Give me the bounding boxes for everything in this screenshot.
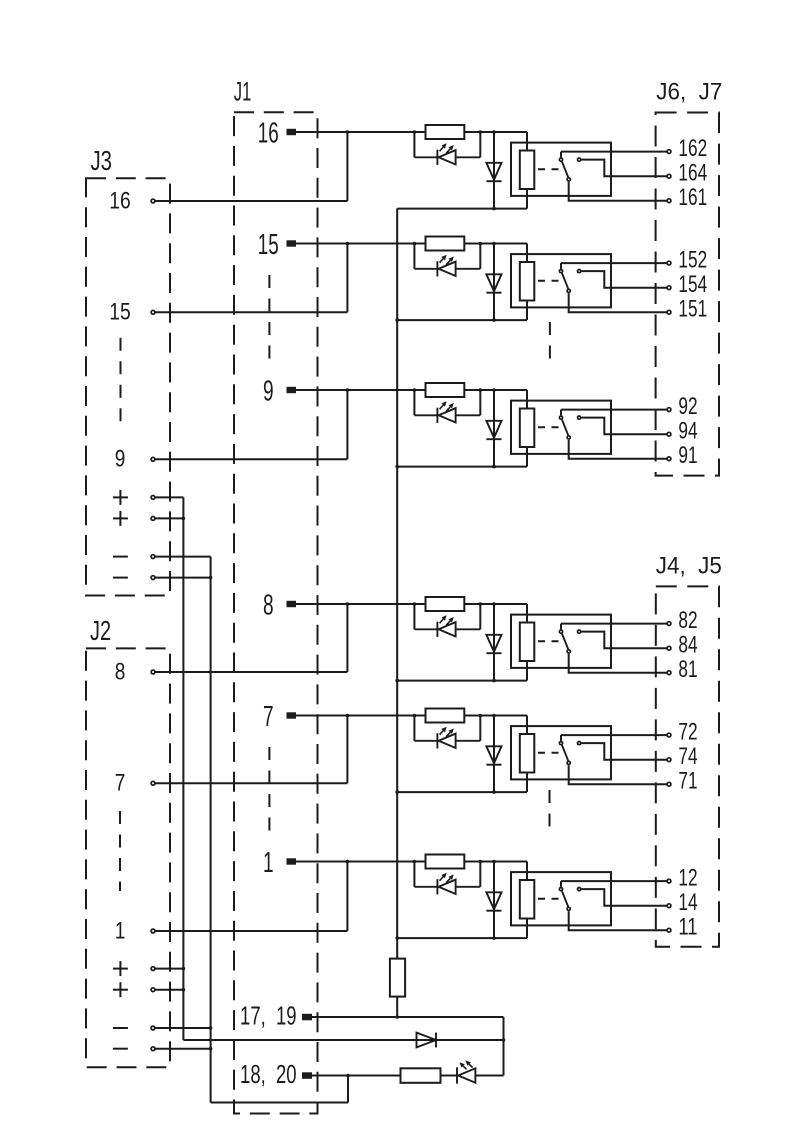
wire: diode D7 vertical xyxy=(493,716,495,793)
wire: common coil return rail xyxy=(396,209,398,959)
svg-text:71: 71 xyxy=(678,768,697,795)
relay K9 NC contact xyxy=(578,416,581,419)
relay K1 actuation link (dashed) xyxy=(538,898,560,900)
resistor R8 (power LED series) xyxy=(401,1068,441,1083)
svg-text:154: 154 xyxy=(678,271,707,298)
wire: riser joining pin 16 wires xyxy=(346,132,348,201)
wire: J2 pin - xyxy=(155,1048,210,1050)
svg-text:1: 1 xyxy=(115,917,126,944)
J3 pin + label xyxy=(113,490,128,505)
node: channel 1 LED branch left xyxy=(413,860,417,864)
LED7 emission arrow 2 xyxy=(469,1064,473,1068)
relay K9 NO contact xyxy=(567,436,570,439)
connector J1 (dashed box) xyxy=(234,112,318,1113)
wire: riser joining pin 1 wires xyxy=(346,862,348,932)
svg-text:82: 82 xyxy=(678,607,697,634)
J1 pin 17, 19 terminal square xyxy=(302,1014,312,1021)
wire: K1 NO contact to terminal 11 xyxy=(569,911,667,930)
node: diode D8 bottom junction xyxy=(492,679,496,683)
svg-text:15: 15 xyxy=(109,299,131,326)
LED16 emission arrow 1 xyxy=(440,147,444,151)
wire: diode D15 vertical xyxy=(493,244,495,321)
J3 pins continuation dashes xyxy=(120,338,122,424)
svg-text:161: 161 xyxy=(678,184,707,211)
wire: J2 pin 1 xyxy=(155,930,347,932)
J3 pin + contact xyxy=(151,517,155,521)
resistor R8 xyxy=(426,597,465,611)
node: J2 first + on rail xyxy=(182,967,186,971)
LED LED7 (power indicator) xyxy=(441,1067,504,1083)
J1 pin 15 terminal square xyxy=(287,240,297,246)
wire: J2 pin 8 xyxy=(155,671,347,673)
terminal 72 xyxy=(667,733,671,737)
resistor R15 xyxy=(426,237,465,251)
J1 pins continuation dashes (7..1) xyxy=(268,747,270,835)
svg-text:81: 81 xyxy=(678,656,697,683)
resistor R7 (common return) xyxy=(390,959,405,997)
terminal 162 xyxy=(667,150,671,154)
node: channel 16 LED branch right xyxy=(479,130,483,134)
node: channel 15 LED branch right xyxy=(479,242,483,246)
relay K15 actuation link (dashed) xyxy=(538,280,560,282)
J3 pin + label xyxy=(113,511,128,526)
svg-text:8: 8 xyxy=(115,658,126,685)
node: channel 8 LED branch right xyxy=(479,602,483,606)
wire: K7 NC contact to terminal 74 xyxy=(581,743,666,760)
wire: channel 7 input rail xyxy=(296,715,527,717)
wire: relay K15 coil top lead xyxy=(526,244,528,263)
connector J3 (dashed box) xyxy=(86,178,170,595)
svg-text:18, 20: 18, 20 xyxy=(240,1059,297,1089)
svg-text:J4, J5: J4, J5 xyxy=(656,552,722,579)
node: diode D9 bottom junction xyxy=(492,465,496,469)
wire: relay K7 coil top lead xyxy=(526,716,528,735)
node: J3 second - on rail xyxy=(209,576,213,580)
wire: LED15 branch left drop xyxy=(413,244,415,269)
node: channel 7 LED branch left xyxy=(413,714,417,718)
LED7 emission arrow 1 xyxy=(463,1066,466,1069)
J1 pin 9 terminal square xyxy=(287,387,297,393)
resistor R9 xyxy=(426,383,465,397)
relay K15 moving blade xyxy=(562,273,568,289)
terminal 71 xyxy=(667,782,671,786)
relay K16 moving blade xyxy=(562,162,568,178)
relay K7 moving blade xyxy=(562,745,568,761)
node: channel 16 junction to left connector xyxy=(346,130,350,134)
relay K7 actuation link (dashed) xyxy=(538,752,560,754)
wire: diode D1 vertical xyxy=(493,862,495,939)
node: J2 second + on rail xyxy=(182,988,186,992)
relay K9 coil xyxy=(520,409,535,448)
wire: LED16 branch left drop xyxy=(413,132,415,157)
wire: relay K9 coil bottom lead xyxy=(526,447,528,467)
wire: 18,20 line left part xyxy=(312,1075,401,1077)
relay K15 NO contact xyxy=(567,289,570,292)
resistor R16 xyxy=(426,125,465,139)
wire: J3 pin + xyxy=(155,496,183,498)
relay K7 NO contact xyxy=(567,761,570,764)
wire: channel 8 input rail xyxy=(296,603,527,605)
wire: relay K16 coil bottom lead xyxy=(526,189,528,209)
J2 pin 7 contact xyxy=(151,781,155,785)
wire: riser joining pin 8 wires xyxy=(346,604,348,672)
node: channel 7 LED branch right xyxy=(479,714,483,718)
wire: channel 9 input rail xyxy=(296,389,527,391)
svg-text:16: 16 xyxy=(258,117,279,149)
J2 pin + label xyxy=(113,982,128,997)
wire: K1 NC contact to terminal 14 xyxy=(581,889,666,906)
J2 pin + label xyxy=(113,961,128,976)
node: channel 9 return to common rail xyxy=(395,465,399,469)
wire: K15 common to terminal 152 xyxy=(561,262,667,264)
node: channel 9 LED branch right xyxy=(479,388,483,392)
wire: LED9 branch right rise xyxy=(479,390,481,415)
J3 pin + contact xyxy=(151,496,155,500)
wire: J3 pin 15 xyxy=(155,311,347,313)
svg-text:9: 9 xyxy=(115,446,126,473)
wire: K8 common riser xyxy=(560,624,562,630)
wire: K9 common to terminal 92 xyxy=(561,409,667,411)
node: channel 9 diode top xyxy=(492,388,496,392)
wire: J2 pin - xyxy=(155,1027,210,1029)
svg-text:74: 74 xyxy=(678,743,697,770)
diode D8 (flyback) xyxy=(486,635,501,653)
LED15 emission arrow 2 xyxy=(446,260,450,264)
connector J4, J5 (dashed box) xyxy=(656,586,719,946)
wire: relay K7 coil bottom lead xyxy=(526,773,528,793)
relay K1 NC contact xyxy=(578,888,581,891)
relay K16 common contact pivot xyxy=(559,158,562,161)
wire: riser joining pin 9 wires xyxy=(346,390,348,459)
svg-text:J1: J1 xyxy=(234,77,252,107)
svg-text:J3: J3 xyxy=(91,145,113,176)
node: R7 joins 17,19 line xyxy=(395,1015,399,1019)
terminal 11 xyxy=(667,928,671,932)
wire: LED1 branch left drop xyxy=(413,862,415,887)
relay K16 NO contact xyxy=(567,178,570,181)
wire: relay K15 coil bottom lead xyxy=(526,301,528,321)
node: channel 1 diode top xyxy=(492,860,496,864)
connector J2 (dashed box) xyxy=(86,648,170,1067)
svg-text:J6, J7: J6, J7 xyxy=(656,78,722,105)
node: channel 16 diode top xyxy=(492,130,496,134)
wire: + supply rail (vertical) xyxy=(182,497,184,1040)
J2 pin - label xyxy=(113,1048,128,1050)
wire: LED7 branch left drop xyxy=(413,716,415,741)
wire: relay K8 coil bottom lead xyxy=(526,661,528,681)
diode D16 (flyback) xyxy=(486,163,501,181)
J3 pin - contact xyxy=(151,555,155,559)
wire: K9 common riser xyxy=(560,410,562,416)
wire: 17,19 line xyxy=(312,1016,504,1018)
node: diode D7 bottom junction xyxy=(492,790,496,794)
terminal 81 xyxy=(667,671,671,675)
svg-text:16: 16 xyxy=(109,187,131,214)
wire: channel 15 input rail xyxy=(296,243,527,245)
node: channel 1 return to common rail xyxy=(395,936,399,940)
node: channel 15 diode top xyxy=(492,242,496,246)
wire: channel 1 return rail xyxy=(397,937,527,939)
LED8 emission arrow 2 xyxy=(446,621,450,625)
resistor R1 xyxy=(426,855,465,869)
svg-text:84: 84 xyxy=(678,632,697,659)
node: diode line joins right riser xyxy=(502,1038,506,1042)
wire: channel 16 input rail xyxy=(296,131,527,133)
node: channel 7 return to common rail xyxy=(395,790,399,794)
svg-text:72: 72 xyxy=(678,719,697,746)
wire: K1 common to terminal 12 xyxy=(561,880,667,882)
diode D7 (flyback) xyxy=(486,746,501,764)
wire: J2 pin + xyxy=(155,989,183,991)
wire: K8 NC contact to terminal 84 xyxy=(581,632,666,649)
wire: - supply rail (vertical) xyxy=(210,557,212,1103)
svg-text:94: 94 xyxy=(678,418,697,445)
node: channel 15 return to common rail xyxy=(395,318,399,322)
svg-text:7: 7 xyxy=(263,701,274,733)
wire: J3 pin 16 xyxy=(155,200,347,202)
J2 pin - contact xyxy=(151,1026,155,1030)
diode D15 (flyback) xyxy=(486,274,501,292)
J3 pin 15 contact xyxy=(151,310,155,314)
terminal 12 xyxy=(667,879,671,883)
diode D1 (flyback) xyxy=(486,892,501,910)
wire: J2 pin 7 xyxy=(155,782,347,784)
LED9 emission arrow 1 xyxy=(440,405,444,409)
relay group continuation dashes (upper) xyxy=(549,322,551,362)
relay K1 coil xyxy=(520,880,535,919)
relay K16 actuation link (dashed) xyxy=(538,168,560,170)
relay K15 NC contact xyxy=(578,270,581,273)
relay K16 outline xyxy=(511,143,611,196)
LED LED16 (indicator) xyxy=(414,150,480,165)
wire: K7 NO contact to terminal 71 xyxy=(569,765,667,784)
wire: R7 to 17,19 line xyxy=(396,997,398,1017)
wire: K15 common riser xyxy=(560,263,562,269)
wire: K16 common riser xyxy=(560,152,562,158)
svg-text:12: 12 xyxy=(678,865,697,892)
svg-text:15: 15 xyxy=(258,229,279,261)
wire: K7 common riser xyxy=(560,735,562,741)
wire: channel 15 return rail xyxy=(397,319,527,321)
terminal 152 xyxy=(667,261,671,265)
wire: + rail to reverse-protection diode xyxy=(183,1039,503,1041)
relay K15 coil xyxy=(520,262,535,301)
wire: channel 1 input rail xyxy=(296,861,527,863)
wire: K1 common riser xyxy=(560,881,562,887)
svg-text:14: 14 xyxy=(678,889,697,916)
J1 pin 1 terminal square xyxy=(287,858,297,864)
wire: K15 NC contact to terminal 154 xyxy=(581,271,666,288)
terminal 154 xyxy=(667,286,671,290)
LED LED15 (indicator) xyxy=(414,261,480,276)
relay K8 NO contact xyxy=(567,650,570,653)
wire: - rail riser to 18,20 line xyxy=(347,1076,349,1103)
wire: K16 NO contact to terminal 161 xyxy=(569,182,667,201)
node: channel 1 junction to left connector xyxy=(346,860,350,864)
relay K1 outline xyxy=(511,872,611,925)
wire: relay K9 coil top lead xyxy=(526,390,528,409)
relay K9 common contact pivot xyxy=(559,416,562,419)
node: channel 15 junction to left connector xyxy=(346,242,350,246)
wire: diode D9 vertical xyxy=(493,390,495,467)
J2 pin 8 contact xyxy=(151,670,155,674)
relay K7 outline xyxy=(511,726,611,779)
J3 pin 9 contact xyxy=(151,457,155,461)
wire: K15 NO contact to terminal 151 xyxy=(569,293,667,312)
node: diode D15 bottom junction xyxy=(492,318,496,322)
wire: relay K8 coil top lead xyxy=(526,604,528,623)
wire: riser joining pin 7 wires xyxy=(346,716,348,784)
svg-text:152: 152 xyxy=(678,247,707,274)
LED16 emission arrow 2 xyxy=(446,149,450,153)
svg-text:151: 151 xyxy=(678,296,707,323)
svg-text:7: 7 xyxy=(115,770,126,797)
wire: K9 NO contact to terminal 91 xyxy=(569,440,667,459)
svg-text:9: 9 xyxy=(263,375,274,407)
wire: LED8 branch left drop xyxy=(413,604,415,629)
svg-text:162: 162 xyxy=(678,135,707,162)
relay K8 moving blade xyxy=(562,634,568,650)
wire: right riser joining 17,19 / diode / LED lines xyxy=(503,1017,505,1076)
LED LED1 (indicator) xyxy=(414,879,480,894)
relay K7 NC contact xyxy=(578,742,581,745)
wire: K16 common to terminal 162 xyxy=(561,151,667,153)
wire: relay K1 coil top lead xyxy=(526,862,528,881)
wire: K16 NC contact to terminal 164 xyxy=(581,160,666,177)
J3 pin - label xyxy=(113,577,128,579)
relay K8 coil xyxy=(520,623,535,662)
wire: relay K1 coil bottom lead xyxy=(526,919,528,939)
node: channel 9 LED branch left xyxy=(413,388,417,392)
wire: riser joining pin 15 wires xyxy=(346,244,348,313)
J2 pin - label xyxy=(113,1027,128,1029)
J2 pin - contact xyxy=(151,1047,155,1051)
wire: LED16 branch right rise xyxy=(479,132,481,157)
terminal 94 xyxy=(667,432,671,436)
node: channel 8 LED branch left xyxy=(413,602,417,606)
J2 pin + contact xyxy=(151,967,155,971)
relay K15 common contact pivot xyxy=(559,270,562,273)
terminal 91 xyxy=(667,457,671,461)
svg-text:1: 1 xyxy=(263,847,274,879)
J3 pin - label xyxy=(113,556,128,558)
node: diode D1 bottom junction xyxy=(492,936,496,940)
LED1 emission arrow 1 xyxy=(440,877,444,881)
relay K16 NC contact xyxy=(578,158,581,161)
relay K8 NC contact xyxy=(578,630,581,633)
relay K7 coil xyxy=(520,734,535,773)
wire: J3 pin - xyxy=(155,577,210,579)
wire: K9 NC contact to terminal 94 xyxy=(581,418,666,435)
svg-text:92: 92 xyxy=(678,393,697,420)
wire: relay K16 coil top lead xyxy=(526,132,528,151)
wire: J3 pin - xyxy=(155,556,210,558)
wire: diode D8 vertical xyxy=(493,604,495,681)
LED LED9 (indicator) xyxy=(414,408,480,423)
relay K16 coil xyxy=(520,151,535,190)
node: J2 second - on rail xyxy=(209,1047,213,1051)
relay K1 moving blade xyxy=(562,891,568,907)
LED15 emission arrow 1 xyxy=(440,259,444,263)
node: - rail joins 18,20 line xyxy=(346,1074,350,1078)
LED7 emission arrow 1 xyxy=(440,731,444,735)
relay K1 NO contact xyxy=(567,907,570,910)
connector J6, J7 (dashed box) xyxy=(656,113,719,476)
J3 pin 16 contact xyxy=(151,199,155,203)
J1 pin 18, 20 terminal square xyxy=(302,1072,312,1079)
resistor R7 xyxy=(426,709,465,723)
J2 pin 1 contact xyxy=(151,929,155,933)
wire: channel 16 return rail xyxy=(397,208,527,210)
wire: K8 common to terminal 82 xyxy=(561,623,667,625)
node: channel 7 junction to left connector xyxy=(346,714,350,718)
wire: LED9 branch left drop xyxy=(413,390,415,415)
LED LED8 (indicator) xyxy=(414,622,480,637)
relay K15 outline xyxy=(511,254,611,307)
relay K9 moving blade xyxy=(562,420,568,436)
J1 pins continuation dashes (15..9) xyxy=(268,275,270,363)
relay group continuation dashes (lower) xyxy=(549,790,551,830)
node: channel 8 diode top xyxy=(492,602,496,606)
J3 pin - contact xyxy=(151,576,155,580)
J1 pin 8 terminal square xyxy=(287,601,297,607)
node: channel 8 return to common rail xyxy=(395,679,399,683)
wire: J3 pin 9 xyxy=(155,458,347,460)
wire: K7 common to terminal 72 xyxy=(561,734,667,736)
terminal 151 xyxy=(667,310,671,314)
wire: diode D16 vertical xyxy=(493,132,495,209)
svg-text:17, 19: 17, 19 xyxy=(240,1000,297,1030)
svg-text:8: 8 xyxy=(263,589,274,621)
diode D7 (reverse protection) xyxy=(417,1033,437,1048)
wire: - rail bottom run xyxy=(211,1102,348,1104)
relay K8 common contact pivot xyxy=(559,630,562,633)
wire: channel 9 return rail xyxy=(397,466,527,468)
terminal 82 xyxy=(667,622,671,626)
node: channel 1 LED branch right xyxy=(479,860,483,864)
node: channel 16 LED branch left xyxy=(413,130,417,134)
J2 pins continuation dashes xyxy=(119,811,121,891)
wire: J3 pin + xyxy=(155,517,183,519)
wire: LED7 branch right rise xyxy=(479,716,481,741)
terminal 164 xyxy=(667,174,671,178)
terminal 92 xyxy=(667,408,671,412)
wire: LED8 branch right rise xyxy=(479,604,481,629)
J2 pin + contact xyxy=(151,988,155,992)
node: diode D16 bottom junction xyxy=(492,207,496,211)
node: J2 first - on rail xyxy=(209,1026,213,1030)
node: channel 15 LED branch left xyxy=(413,242,417,246)
terminal 161 xyxy=(667,199,671,203)
relay K7 common contact pivot xyxy=(559,742,562,745)
LED LED7 (indicator) xyxy=(414,733,480,748)
node: channel 8 junction to left connector xyxy=(346,602,350,606)
relay K9 outline xyxy=(511,401,611,454)
terminal 74 xyxy=(667,758,671,762)
LED1 emission arrow 2 xyxy=(446,878,450,882)
wire: channel 8 return rail xyxy=(397,680,527,682)
svg-text:11: 11 xyxy=(678,914,697,941)
node: channel 7 diode top xyxy=(492,714,496,718)
terminal 14 xyxy=(667,904,671,908)
J1 pin 16 terminal square xyxy=(287,129,297,135)
LED7 emission arrow 2 xyxy=(446,732,450,736)
J1 pin 7 terminal square xyxy=(287,712,297,718)
LED9 emission arrow 2 xyxy=(446,407,450,411)
relay K1 common contact pivot xyxy=(559,888,562,891)
relay K8 actuation link (dashed) xyxy=(538,640,560,642)
node: J3 second + on rail xyxy=(182,517,186,521)
